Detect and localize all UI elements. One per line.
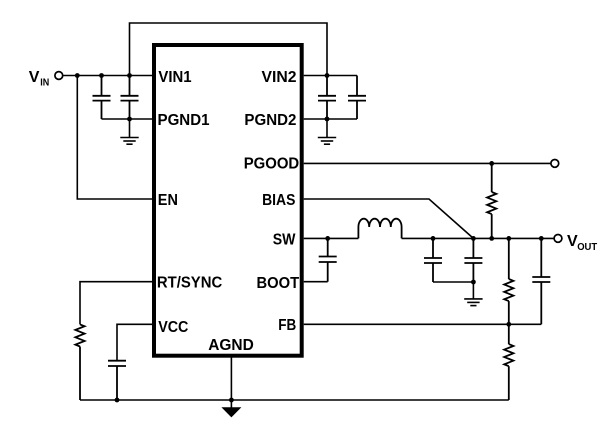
wire PGND2 node line — [304, 118, 357, 120]
ground at output caps — [464, 282, 482, 306]
wire AGND stem — [230, 356, 232, 400]
svg-text:IN: IN — [40, 76, 49, 88]
wire bottom ground bus — [80, 399, 509, 401]
wire PGOOD line — [304, 162, 551, 164]
junction AGND — [229, 398, 234, 403]
IC U1 body — [154, 45, 302, 356]
svg-text:EN: EN — [158, 192, 178, 209]
svg-text:VIN1: VIN1 — [158, 69, 191, 86]
wire FB line — [304, 323, 542, 325]
capacitor input C1 (left, x=101.5) — [93, 76, 111, 120]
junction VIN/EN tap — [75, 73, 80, 78]
wire RT/SYNC line — [80, 282, 152, 325]
junction SW at C7 — [539, 236, 544, 241]
svg-text:SW: SW — [273, 231, 296, 248]
junction C3 bottom / PGND2 — [325, 117, 330, 122]
junction FB node — [506, 322, 511, 327]
wire PGND1 node line — [102, 118, 153, 120]
svg-text:BIAS: BIAS — [262, 192, 296, 209]
svg-text:PGND1: PGND1 — [158, 112, 210, 129]
wire over-the-top VIN1 to VIN2 — [130, 23, 328, 76]
junction C2 top — [127, 73, 132, 78]
ground at PGND1 — [120, 119, 138, 144]
capacitor output C5 (x=433) — [424, 238, 442, 282]
wire C5 bottom to C6 bottom — [433, 281, 473, 283]
capacitor BOOT (x=327.7) — [319, 238, 337, 281]
junction C2 bottom / PGND1 — [127, 117, 132, 122]
junction C6 bottom node — [471, 280, 476, 285]
svg-text:BOOT: BOOT — [257, 275, 300, 292]
capacitor input C4 (right, x=357) — [348, 76, 366, 120]
svg-text:AGND: AGND — [208, 337, 254, 354]
terminal PGOOD — [551, 160, 559, 168]
junction SW at C5 — [431, 236, 436, 241]
wire SW line right segment — [402, 237, 555, 239]
terminal VIN — [55, 72, 63, 80]
ground arrow at AGND — [221, 400, 241, 417]
capacitor input C2 (left, x=129.5) — [121, 76, 139, 120]
inductor L1 — [358, 219, 401, 239]
wire EN vertical from VIN node — [77, 76, 152, 200]
resistor feedback R2 bottom (x=508.8) — [504, 324, 513, 400]
capacitor VCC (x=117) — [108, 361, 126, 400]
svg-text:VCC: VCC — [158, 319, 189, 336]
resistor feedback R1 top (x=508.8) — [504, 238, 513, 324]
junction SW at R1 — [506, 236, 511, 241]
junction SW at PGOOD resistor — [489, 236, 494, 241]
ground at PGND2 — [318, 119, 336, 144]
svg-text:OUT: OUT — [577, 241, 598, 253]
capacitor output C6 (x=473.4) — [464, 238, 482, 282]
junction C3 top — [325, 73, 330, 78]
wire VIN1 input line — [63, 75, 152, 77]
junction PGOOD resistor top — [489, 161, 494, 166]
wire SW line left segment — [304, 237, 359, 239]
svg-text:VIN2: VIN2 — [262, 69, 297, 86]
junction BOOT cap top — [325, 236, 330, 241]
wire VCC line — [117, 324, 152, 360]
svg-text:PGND2: PGND2 — [244, 112, 296, 129]
svg-text:PGOOD: PGOOD — [244, 155, 300, 172]
wire BIAS line — [304, 199, 474, 238]
wire VIN2 line — [304, 75, 357, 77]
capacitor feed-forward C7 (x=541.3) — [532, 238, 550, 324]
svg-text:FB: FB — [278, 317, 296, 334]
terminal VOUT — [554, 235, 562, 243]
wire BOOT line — [304, 281, 328, 283]
resistor RT (x=80) — [75, 324, 84, 400]
junction VCC cap bottom — [115, 398, 120, 403]
svg-text:RT/SYNC: RT/SYNC — [157, 275, 223, 292]
capacitor input C3 (right, x=327) — [318, 76, 336, 120]
resistor PGOOD pull-up (x=491.7) — [487, 163, 496, 238]
svg-text:V: V — [29, 69, 40, 86]
junction SW at C6 / BIAS diagonal — [471, 236, 476, 241]
junction C1 top — [99, 73, 104, 78]
